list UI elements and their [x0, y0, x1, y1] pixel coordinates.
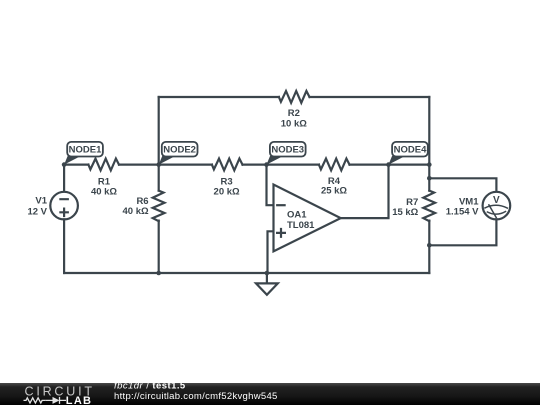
resistor R1 — [88, 159, 119, 171]
node D NODE4 flag — [389, 142, 428, 165]
svg-text:25 kΩ: 25 kΩ — [321, 186, 347, 197]
footer logo resistor and diode glyph — [24, 397, 67, 404]
wire NODE4 to T junction — [389, 164, 430, 166]
label V1 value — [27, 195, 47, 217]
svg-text:NODE4: NODE4 — [394, 145, 427, 156]
wire NODE3 to op-amp inverting input — [267, 165, 274, 206]
op-amp inverting input minus sign — [277, 204, 284, 206]
wire op-amp output — [341, 165, 389, 219]
junction R6 bottom dot — [156, 271, 161, 276]
label VM1 value — [446, 197, 479, 218]
svg-text:15 kΩ: 15 kΩ — [392, 207, 418, 218]
wire ground node to op-amp non-inverting input — [268, 231, 274, 273]
junction ground dot — [265, 271, 270, 276]
label R7 value — [392, 197, 418, 218]
resistor R6 — [153, 191, 165, 222]
junction node NODE4 dot — [386, 162, 391, 167]
wire R4 to NODE4 — [350, 164, 389, 166]
label R4 value — [321, 176, 347, 197]
svg-text:V1: V1 — [35, 195, 47, 206]
wire top horizontal left of R2 — [159, 96, 279, 98]
wire R7 top lead — [428, 165, 430, 191]
label R3 value — [214, 176, 240, 197]
VM1 meter scale arc upper — [485, 205, 507, 208]
svg-text:LAB: LAB — [66, 395, 93, 405]
wire vertical top-left drop to NODE2 — [158, 97, 160, 165]
svg-text:V: V — [493, 195, 500, 206]
junction T top-right dot — [427, 162, 432, 167]
wire R6 bottom lead — [158, 221, 160, 273]
svg-text:40 kΩ: 40 kΩ — [91, 186, 117, 197]
wire NODE2 to R3 — [159, 164, 212, 166]
svg-text:NODE3: NODE3 — [271, 145, 304, 156]
VM1 meter needle — [489, 205, 496, 218]
label R2 value — [281, 108, 307, 130]
svg-text:1.154 V: 1.154 V — [446, 207, 479, 218]
wire VM1 top branch — [429, 178, 496, 192]
junction VM1 top dot — [427, 176, 432, 181]
resistor R7 — [423, 191, 435, 222]
resistor R2 — [279, 91, 310, 103]
footer bar — [0, 383, 540, 405]
resistor R4 — [319, 159, 350, 171]
svg-text:NODE1: NODE1 — [69, 145, 102, 156]
svg-text:NODE2: NODE2 — [163, 145, 196, 156]
svg-text:40 kΩ: 40 kΩ — [122, 206, 148, 217]
svg-text:20 kΩ: 20 kΩ — [214, 186, 240, 197]
wire R3 to NODE3 — [243, 164, 267, 166]
label R6 value — [122, 196, 148, 217]
svg-text:http://circuitlab.com/cmf52kvg: http://circuitlab.com/cmf52kvghw545 — [114, 391, 278, 402]
wire ground stem — [266, 273, 268, 283]
node A NODE1 flag — [64, 142, 103, 165]
junction node NODE3 dot — [264, 162, 269, 167]
ground symbol — [256, 283, 278, 294]
voltage source V1 — [50, 192, 78, 220]
op-amp U1 triangle — [274, 185, 341, 252]
wire R7 bottom lead — [428, 221, 430, 273]
svg-text:TL081: TL081 — [287, 220, 315, 231]
svg-text:12 V: 12 V — [27, 206, 47, 217]
wire VM1 bottom branch — [429, 219, 496, 245]
node C NODE3 flag — [267, 142, 306, 165]
junction VM1 bottom dot — [427, 243, 432, 248]
svg-text:fbc1dr / test1.5: fbc1dr / test1.5 — [114, 381, 186, 392]
resistor R3 — [212, 159, 243, 171]
wire V1 top lead — [63, 165, 65, 192]
wire R6 top lead — [158, 165, 160, 191]
voltmeter VM1 — [483, 192, 511, 220]
wire V1 bottom lead — [63, 219, 65, 273]
wire NODE3 to R4 — [267, 164, 319, 166]
label R1 value — [91, 176, 117, 197]
VM1 meter scale arc lower — [487, 212, 505, 215]
label OA1 designator — [287, 210, 315, 231]
op-amp non-inverting input plus sign — [277, 229, 285, 237]
svg-text:R2: R2 — [288, 108, 300, 119]
junction node NODE2 dot — [156, 162, 161, 167]
node B NODE2 flag — [159, 142, 198, 165]
junction node NODE1 dot — [62, 162, 67, 167]
wire vertical top-right drop to NODE4 junction — [428, 97, 430, 165]
wire NODE1 to R1 — [64, 164, 88, 166]
wire top horizontal right of R2 — [310, 96, 430, 98]
wire R1 to NODE2 — [119, 164, 159, 166]
wire bottom horizontal — [64, 272, 429, 274]
svg-text:10 kΩ: 10 kΩ — [281, 119, 307, 130]
